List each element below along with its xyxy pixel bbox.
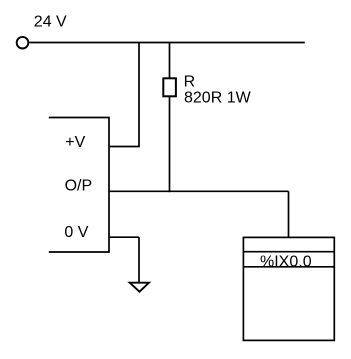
ground xyxy=(130,283,149,292)
wire: 0V stub xyxy=(109,236,139,238)
terminal: 24V supply input xyxy=(17,37,29,49)
wire: rail to resistor top xyxy=(169,43,171,79)
svg-text:820R 1W: 820R 1W xyxy=(184,90,252,107)
svg-text:0 V: 0 V xyxy=(64,224,88,241)
sensor block (open-left box) xyxy=(49,118,109,253)
wire: O/P output line xyxy=(109,190,289,192)
resistor R xyxy=(163,78,176,96)
svg-text:+V: +V xyxy=(65,134,85,151)
svg-text:24 V: 24 V xyxy=(34,13,67,30)
svg-text:%IX0.0: %IX0.0 xyxy=(260,254,312,271)
PLC input box xyxy=(243,237,334,340)
wire: drop to PLC input box xyxy=(288,191,290,237)
wire: resistor bottom to O/P line xyxy=(169,96,171,192)
wire: top 24V rail xyxy=(29,42,305,44)
wire: rail drop to +V stub xyxy=(109,43,139,147)
svg-text:O/P: O/P xyxy=(65,178,93,195)
svg-text:R: R xyxy=(184,73,196,90)
wire: 0V drop to ground xyxy=(138,237,140,283)
